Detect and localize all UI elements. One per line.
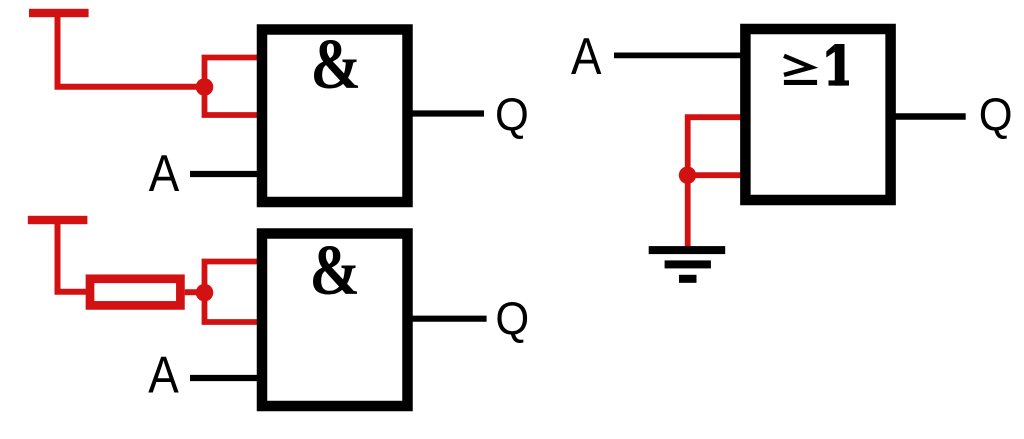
svg-text:A: A [149,144,180,202]
svg-text:Q: Q [495,88,529,140]
svg-text:&: & [311,24,362,104]
svg-text:Q: Q [495,292,529,344]
svg-text:Q: Q [979,88,1013,140]
svg-text:&: & [309,230,360,310]
svg-text:A: A [148,346,179,404]
svg-text:A: A [571,27,602,85]
